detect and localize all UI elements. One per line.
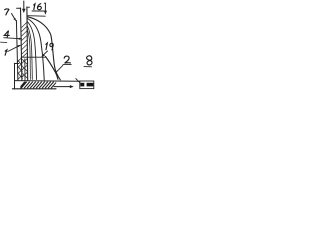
label 2	[64, 56, 70, 63]
tube top tick	[17, 7, 21, 9]
flange left edge	[14, 63, 16, 89]
bell inner curve 3	[27, 26, 32, 80]
bell outer curve	[28, 17, 61, 80]
label 16	[34, 4, 35, 10]
tube top right tick	[27, 6, 30, 8]
base bottom edge	[12, 88, 56, 90]
label 3	[5, 9, 9, 15]
label 1	[5, 50, 7, 55]
bell inner curve 1	[28, 19, 45, 81]
bell inner curve 4	[27, 30, 30, 80]
19 arrow	[43, 51, 48, 55]
tube right wall	[26, 7, 29, 81]
fitting block	[80, 81, 94, 89]
base hatched band	[21, 82, 56, 88]
base top edge	[15, 80, 81, 83]
label 8	[87, 56, 92, 65]
feed arrow into tube	[23, 1, 25, 10]
horizontal pointer line under 16	[28, 15, 46, 18]
stray scan dash	[1, 41, 7, 43]
label 19	[46, 43, 47, 50]
horizontal level line	[21, 56, 46, 58]
tube left wall	[21, 8, 22, 81]
outlet pipe bottom line with arrow	[54, 86, 71, 88]
bell lower dome arc	[46, 57, 58, 80]
label 4	[4, 31, 9, 35]
bell inner curve 2	[27, 22, 36, 80]
inner insert line	[24, 59, 26, 81]
upper light hatching	[22, 23, 28, 58]
16 down arrow	[44, 2, 45, 4]
sleeve outer wall	[16, 20, 18, 80]
leader to fitting	[76, 79, 80, 83]
lower cross hatching	[17, 58, 28, 80]
leader for 3	[12, 14, 16, 21]
